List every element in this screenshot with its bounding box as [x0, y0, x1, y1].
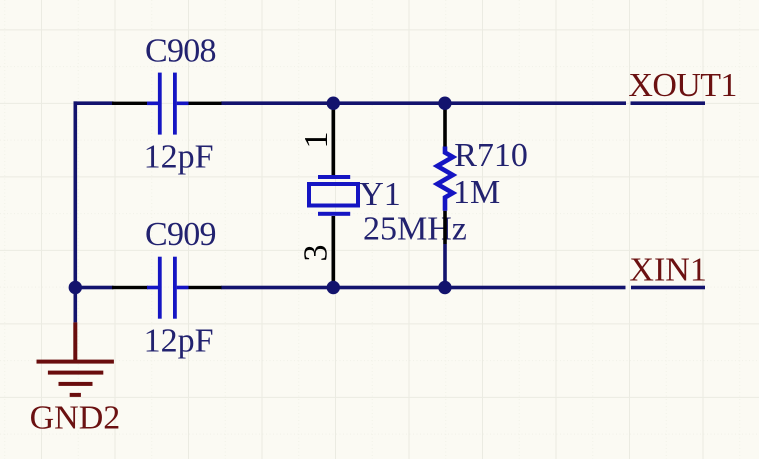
- label R710: [454, 137, 528, 174]
- svg-text:C908: C908: [145, 33, 217, 70]
- wire left vertical: [74, 101, 78, 289]
- net label XIN1: [629, 251, 706, 288]
- label 25MHz (Y1 value): [363, 211, 467, 248]
- label 12pF (C909 value): [144, 323, 214, 360]
- svg-text:GND2: GND2: [30, 400, 121, 437]
- pin 3 (Y1 bottom): [298, 245, 335, 262]
- label GND2: [30, 400, 121, 437]
- label C909: [145, 216, 217, 253]
- label 1M (R710 value): [453, 174, 500, 211]
- svg-text:C909: C909: [145, 216, 217, 253]
- resistor R710: [437, 105, 453, 244]
- ground GND2: [37, 322, 114, 397]
- crystal Y1: [309, 105, 358, 286]
- svg-text:25MHz: 25MHz: [363, 211, 467, 248]
- node junction bottom left: [69, 281, 82, 294]
- svg-text:XIN1: XIN1: [629, 251, 706, 288]
- pin 1 (Y1 top): [298, 132, 335, 149]
- label Y1: [359, 176, 401, 213]
- svg-text:R710: R710: [454, 137, 528, 174]
- svg-text:XOUT1: XOUT1: [628, 67, 737, 104]
- svg-text:1M: 1M: [453, 174, 500, 211]
- node junction top resistor: [438, 97, 451, 110]
- svg-text:3: 3: [298, 245, 335, 262]
- label 12pF (C908 value): [144, 139, 214, 176]
- capacitor C908: [112, 73, 222, 135]
- svg-text:1: 1: [298, 132, 335, 149]
- node junction bottom crystal: [327, 281, 340, 294]
- wire top net XOUT1: [74, 101, 706, 105]
- wire bottom net XIN1: [74, 286, 706, 290]
- capacitor C909: [112, 257, 222, 319]
- wire ground drop: [74, 289, 78, 322]
- svg-text:Y1: Y1: [359, 176, 401, 213]
- node junction bottom resistor: [438, 281, 451, 294]
- svg-text:12pF: 12pF: [144, 323, 214, 360]
- net label XOUT1: [628, 67, 737, 104]
- svg-text:12pF: 12pF: [144, 139, 214, 176]
- wire resistor bottom lead: [443, 244, 447, 288]
- node junction top crystal: [327, 97, 340, 110]
- label C908: [145, 33, 217, 70]
